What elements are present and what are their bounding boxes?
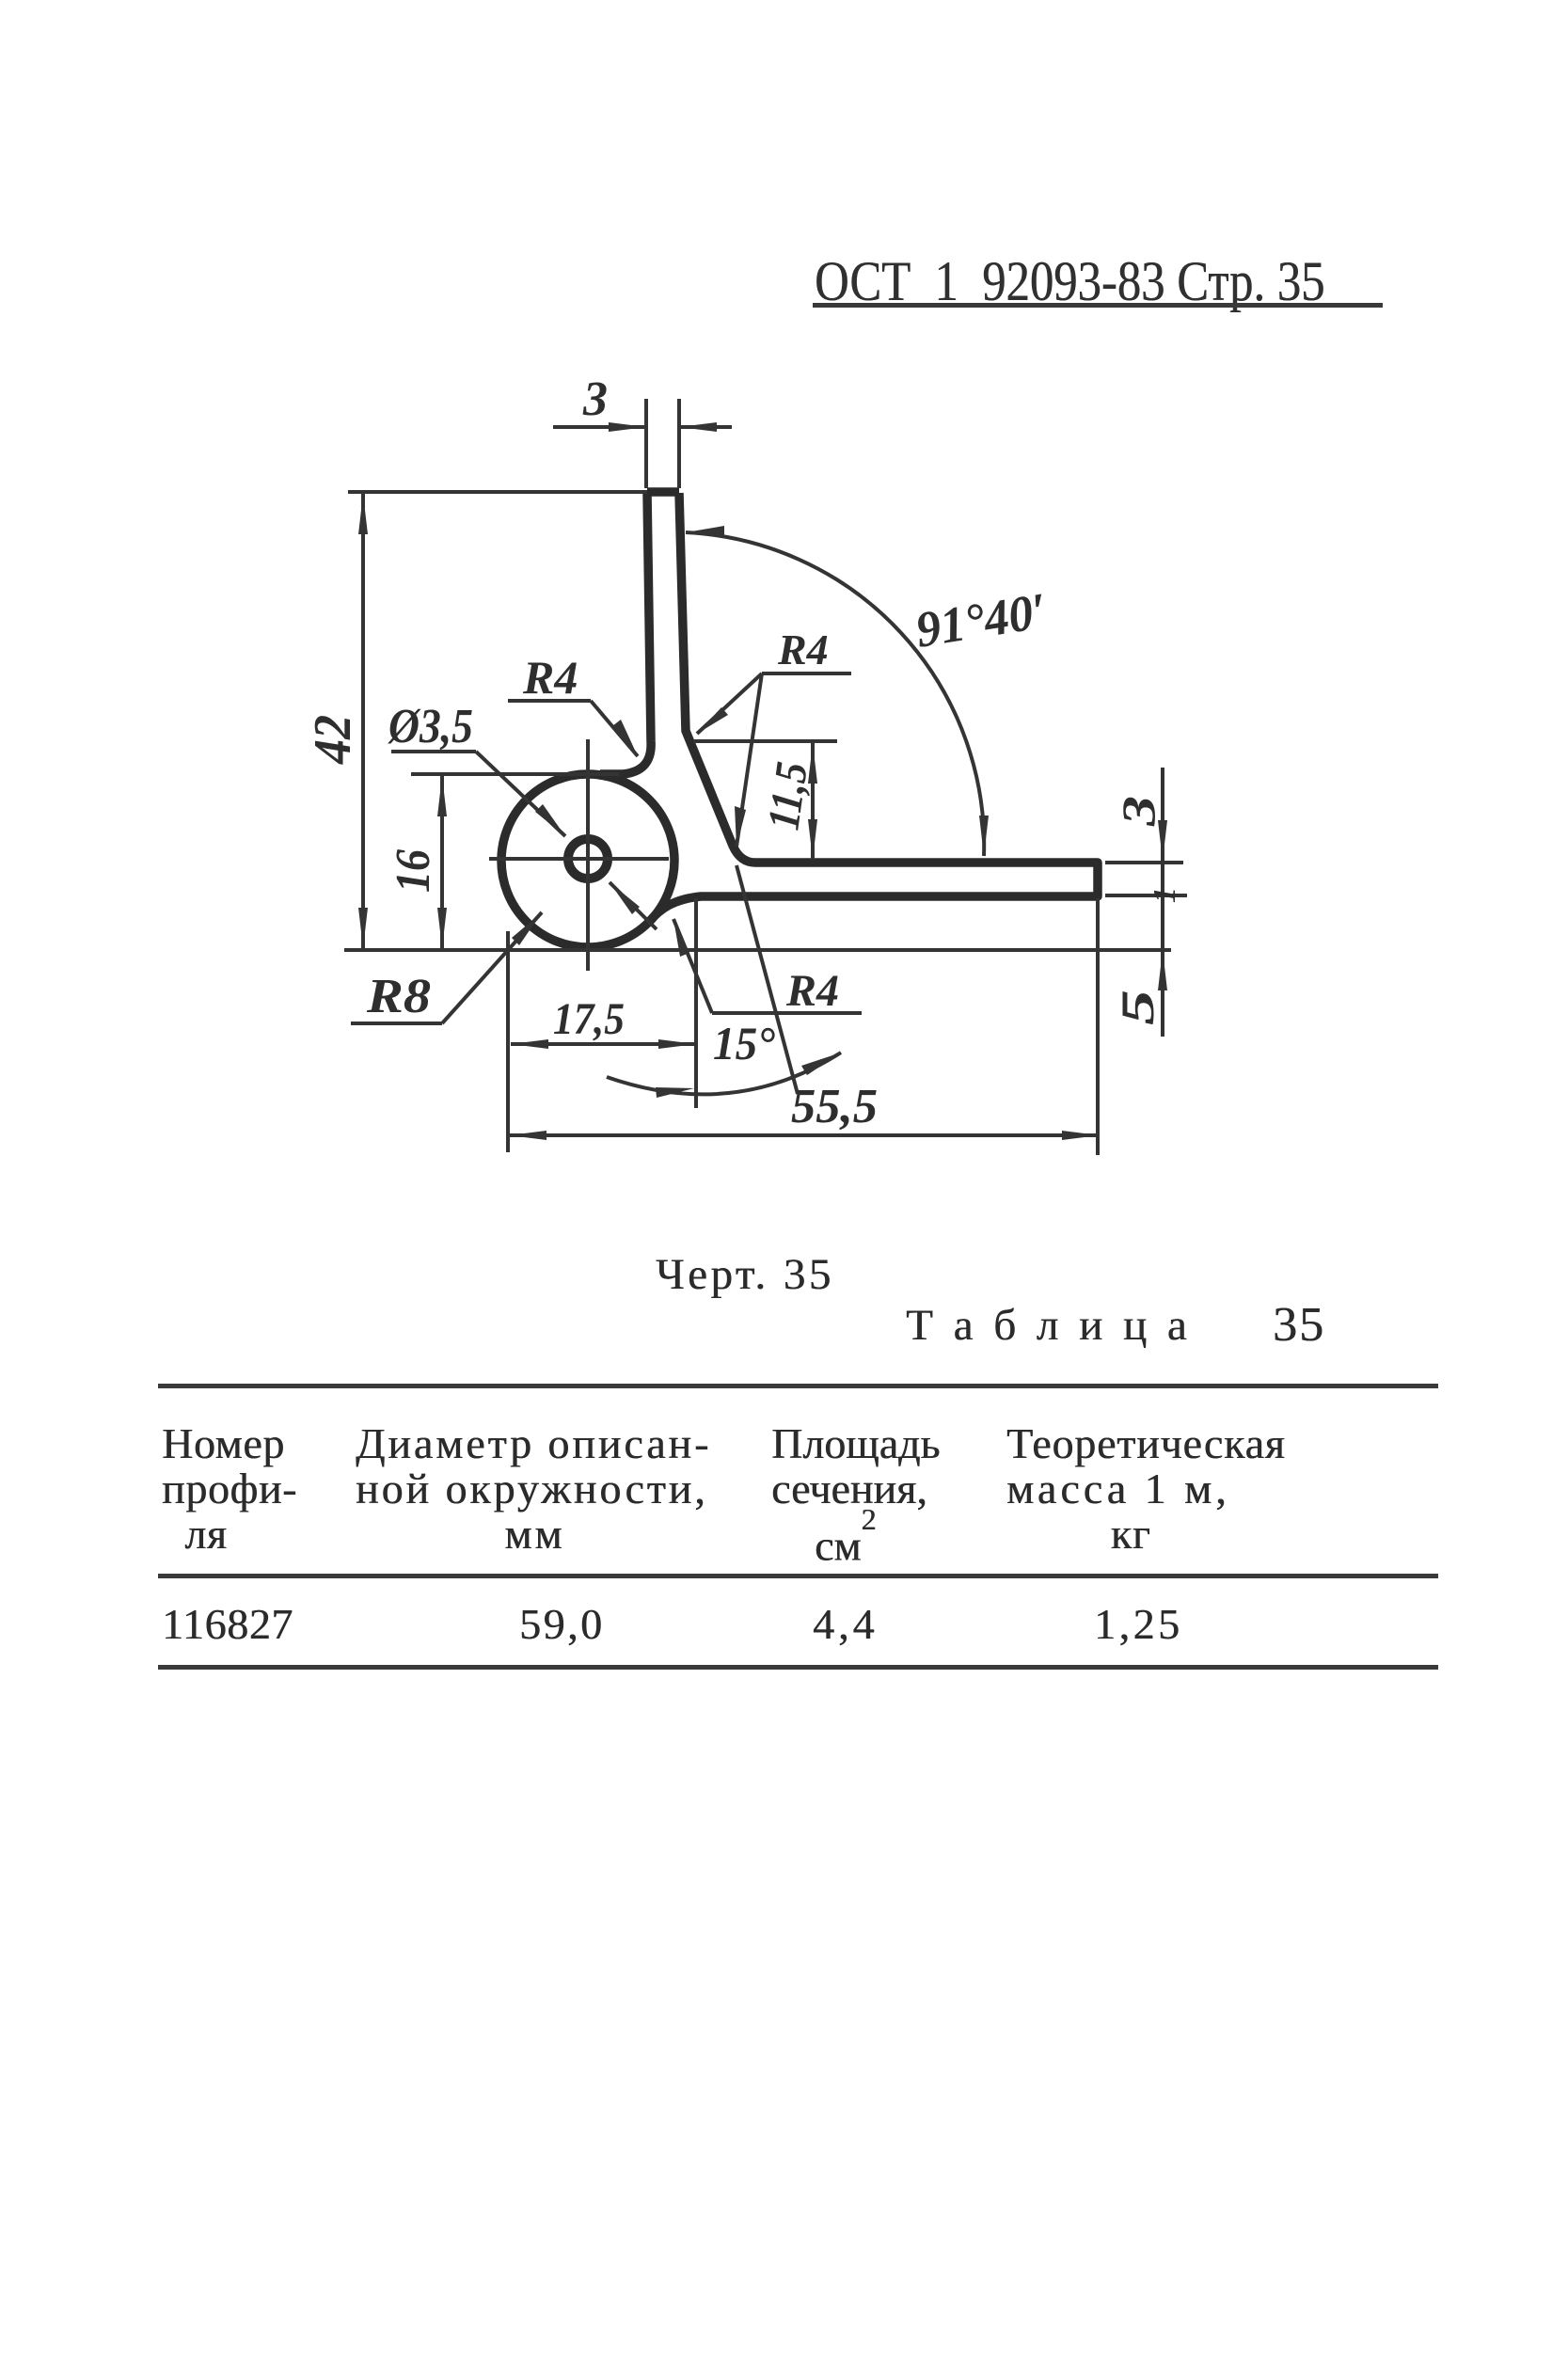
svg-text:3: 3 <box>1112 796 1164 827</box>
svg-text:Ø3,5: Ø3,5 <box>388 700 473 753</box>
svg-text:R4: R4 <box>522 651 578 704</box>
svg-text:16: 16 <box>387 849 440 893</box>
svg-text:R8: R8 <box>366 970 431 1023</box>
svg-text:42: 42 <box>304 715 362 765</box>
svg-text:3: 3 <box>582 372 608 426</box>
svg-text:R4: R4 <box>785 966 839 1016</box>
svg-text:55,5: 55,5 <box>791 1080 878 1133</box>
svg-text:17,5: 17,5 <box>553 994 625 1044</box>
svg-text:1: 1 <box>1148 887 1182 903</box>
svg-text:11,5: 11,5 <box>758 759 817 833</box>
svg-text:5: 5 <box>1111 990 1164 1025</box>
svg-text:15°: 15° <box>713 1017 775 1069</box>
svg-text:R4: R4 <box>777 626 829 673</box>
svg-text:91°40′: 91°40′ <box>911 582 1051 658</box>
